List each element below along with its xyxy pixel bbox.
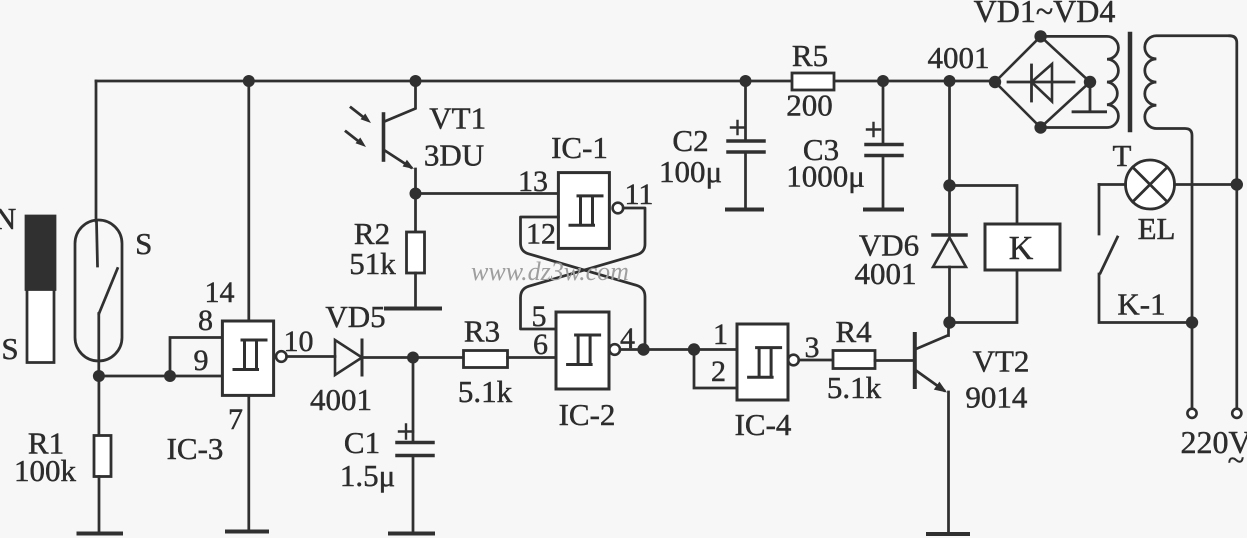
IC-4 output bubble pin 3 (788, 355, 799, 366)
svg-text:T: T (1113, 138, 1132, 173)
capacitor C1 (412, 358, 415, 443)
svg-text:2: 2 (711, 355, 726, 388)
wire top supply rail (96, 80, 995, 83)
wire VT1 emitter to IC-1 pin13 (416, 192, 559, 195)
svg-text:13: 13 (518, 165, 548, 198)
reed switch blade (99, 269, 118, 314)
svg-text:4001: 4001 (928, 40, 990, 75)
svg-text:11: 11 (625, 178, 654, 211)
svg-text:R4: R4 (836, 314, 873, 349)
svg-text:1: 1 (713, 318, 728, 351)
node junction dot VD5/C1/R3 (407, 352, 419, 364)
diode VD5 (335, 340, 362, 375)
reed switch S capsule (75, 220, 122, 361)
svg-text:S: S (1, 331, 18, 366)
capacitor C2 (744, 81, 747, 141)
schmitt trigger gate IC-1 box (558, 173, 609, 249)
ground bar under C1 (390, 532, 433, 536)
resistor R1 (98, 376, 101, 436)
IC-3 hysteresis glyph (234, 340, 266, 370)
lamp EL (1126, 160, 1175, 209)
ground bar under IC-3 (227, 530, 267, 534)
C1 plus sign (399, 425, 413, 439)
svg-text:IC-2: IC-2 (559, 397, 616, 432)
IC-4 hysteresis glyph (749, 348, 781, 378)
svg-text:10: 10 (284, 325, 314, 358)
IC-2 output bubble pin 4 (609, 344, 620, 355)
VT1 light arrow 2 (346, 132, 361, 144)
node junction dot switch bottom (1186, 316, 1198, 328)
svg-text:IC-1: IC-1 (551, 130, 608, 165)
node junction dot feedback (637, 343, 649, 355)
svg-text:N: N (0, 201, 16, 236)
node emitter junction dot (410, 188, 422, 200)
reed switch top contact (97, 221, 98, 266)
ground bar under R1 (79, 532, 122, 536)
ground bar under VT2 (928, 532, 968, 536)
svg-text:5.1k: 5.1k (458, 374, 513, 409)
wire to 220V terminal left (1191, 323, 1194, 409)
switch K-1 (1098, 185, 1101, 235)
ground bar under C2 (727, 208, 762, 212)
wire VD6 branch from rail (948, 81, 951, 235)
VT1 light arrow 1 (351, 108, 366, 120)
node junction dot left (93, 370, 105, 382)
svg-text:12: 12 (526, 218, 556, 251)
svg-text:VT1: VT1 (429, 101, 486, 136)
IC-3 pin 14 wire to rail (247, 81, 250, 321)
IC-3 pin 7 wire to ground (247, 395, 250, 530)
svg-text:4001: 4001 (855, 256, 917, 291)
wire IC-4 output to R4 (799, 359, 835, 362)
IC-1 hysteresis glyph (570, 196, 602, 225)
transformer T secondary winding (1145, 36, 1230, 323)
svg-text:IC-4: IC-4 (735, 407, 792, 442)
wire IC-1 pin12 loop to IC-2 output (cross wire) (521, 217, 646, 350)
svg-text:R3: R3 (464, 314, 500, 349)
svg-text:www.dz3w.com: www.dz3w.com (471, 257, 629, 286)
wire IC-3 output to VD5 (287, 355, 335, 358)
wire secondary top to right vertical (1230, 36, 1237, 409)
svg-text:R5: R5 (792, 38, 828, 73)
svg-text:6: 6 (533, 328, 548, 361)
svg-text:8: 8 (198, 304, 213, 337)
resistor R2 (414, 194, 417, 233)
bridge rectifier VD1~VD4 (995, 36, 1090, 127)
transformer T primary winding (1041, 36, 1119, 127)
svg-text:3DU: 3DU (424, 138, 484, 173)
reed switch bottom lead (97, 314, 100, 377)
svg-text:9: 9 (194, 344, 209, 377)
magnet N pole (black bar) (26, 216, 55, 290)
svg-text:C1: C1 (344, 425, 380, 460)
terminal circle right (1232, 409, 1241, 418)
svg-text:EL: EL (1138, 211, 1176, 246)
svg-text:4001: 4001 (310, 382, 372, 417)
IC-3 output bubble pin 10 (276, 351, 287, 362)
wire IC-1 output to IC-2 pin5 (cross wire) (521, 208, 646, 329)
svg-text:100μ: 100μ (659, 154, 722, 189)
wire node row to IC-3 inputs (99, 375, 222, 378)
resistor R4 (833, 351, 875, 369)
svg-text:K-1: K-1 (1117, 287, 1165, 322)
IC-2 hysteresis glyph (568, 335, 600, 365)
svg-text:C2: C2 (672, 123, 708, 158)
svg-text:9014: 9014 (965, 380, 1028, 415)
svg-text:3: 3 (805, 331, 820, 364)
capacitor C3 (882, 81, 885, 145)
transistor VT1 phototransistor (410, 75, 422, 87)
wire IC-2 output to IC-4 (620, 348, 737, 351)
svg-text:4: 4 (620, 322, 635, 355)
terminal circle left (1187, 409, 1196, 418)
resistor R5 (792, 73, 834, 90)
wire left drop to reed switch (95, 81, 98, 221)
svg-text:IC-3: IC-3 (167, 431, 224, 466)
relay K box (950, 186, 1018, 225)
svg-text:7: 7 (228, 403, 243, 436)
wire VD5 to node (362, 356, 464, 359)
node junction dot IC-4 input (688, 343, 700, 355)
resistor R3 (464, 351, 508, 368)
ground bar under C3 (865, 208, 902, 212)
schmitt trigger gate IC-3 box (222, 321, 273, 395)
transistor VT2 (913, 334, 917, 387)
svg-text:~: ~ (1228, 442, 1245, 477)
svg-text:VD1~VD4: VD1~VD4 (974, 0, 1116, 29)
svg-text:1000μ: 1000μ (786, 159, 865, 194)
node junction dot right (164, 370, 176, 382)
svg-text:K: K (1009, 230, 1034, 267)
C2 plus sign (731, 121, 744, 134)
ground bar under R2 (386, 307, 440, 311)
node junction dot lamp right (1231, 178, 1243, 190)
schmitt trigger gate IC-4 box (737, 324, 788, 400)
magnet S pole (white bar) (27, 290, 54, 363)
svg-text:51k: 51k (349, 246, 396, 281)
transformer core (1128, 34, 1133, 130)
wire IC-4 pin2 loop (694, 350, 737, 389)
svg-text:VD5: VD5 (325, 299, 385, 334)
diode VD6 (933, 233, 966, 237)
svg-text:1.5μ: 1.5μ (340, 458, 395, 493)
wire IC-3 pin8 loop (170, 338, 222, 377)
C3 plus sign (867, 123, 880, 136)
schmitt trigger gate IC-2 box (556, 312, 609, 389)
node collector junction dot (943, 316, 955, 328)
svg-text:200: 200 (786, 88, 833, 123)
svg-text:VT2: VT2 (973, 344, 1030, 379)
svg-text:100k: 100k (14, 453, 77, 488)
svg-text:S: S (135, 226, 152, 261)
svg-text:5.1k: 5.1k (827, 370, 882, 405)
IC-1 output bubble pin 11 (613, 203, 624, 214)
node junction dot relay top (943, 179, 955, 191)
